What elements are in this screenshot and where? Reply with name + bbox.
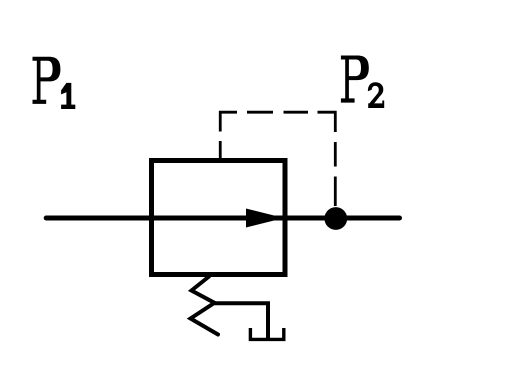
pilot line: dashed corner top-right	[318, 112, 336, 132]
pilot line: dash	[247, 111, 273, 114]
label P2 : letter P	[341, 56, 369, 103]
pilot line: dashed corner top-left	[220, 112, 237, 131]
pilot line: dash	[284, 111, 309, 114]
pilot line: dash	[334, 142, 337, 167]
label P2 : subscript 2	[368, 82, 384, 108]
pilot line: dash to junction	[334, 177, 337, 207]
tank symbol	[250, 328, 283, 339]
label P1 : subscript 1	[61, 83, 75, 109]
label P1 : letter P	[33, 57, 61, 104]
flow arrow inside valve	[246, 209, 284, 228]
spring below valve	[191, 277, 219, 335]
pilot line: solid stub from valve top	[219, 141, 222, 161]
valve body box	[152, 161, 286, 275]
wire: main horizontal line P1 to P2	[46, 216, 399, 221]
drain line to tank	[215, 303, 269, 339]
node: junction dot on P2 line	[324, 207, 347, 230]
